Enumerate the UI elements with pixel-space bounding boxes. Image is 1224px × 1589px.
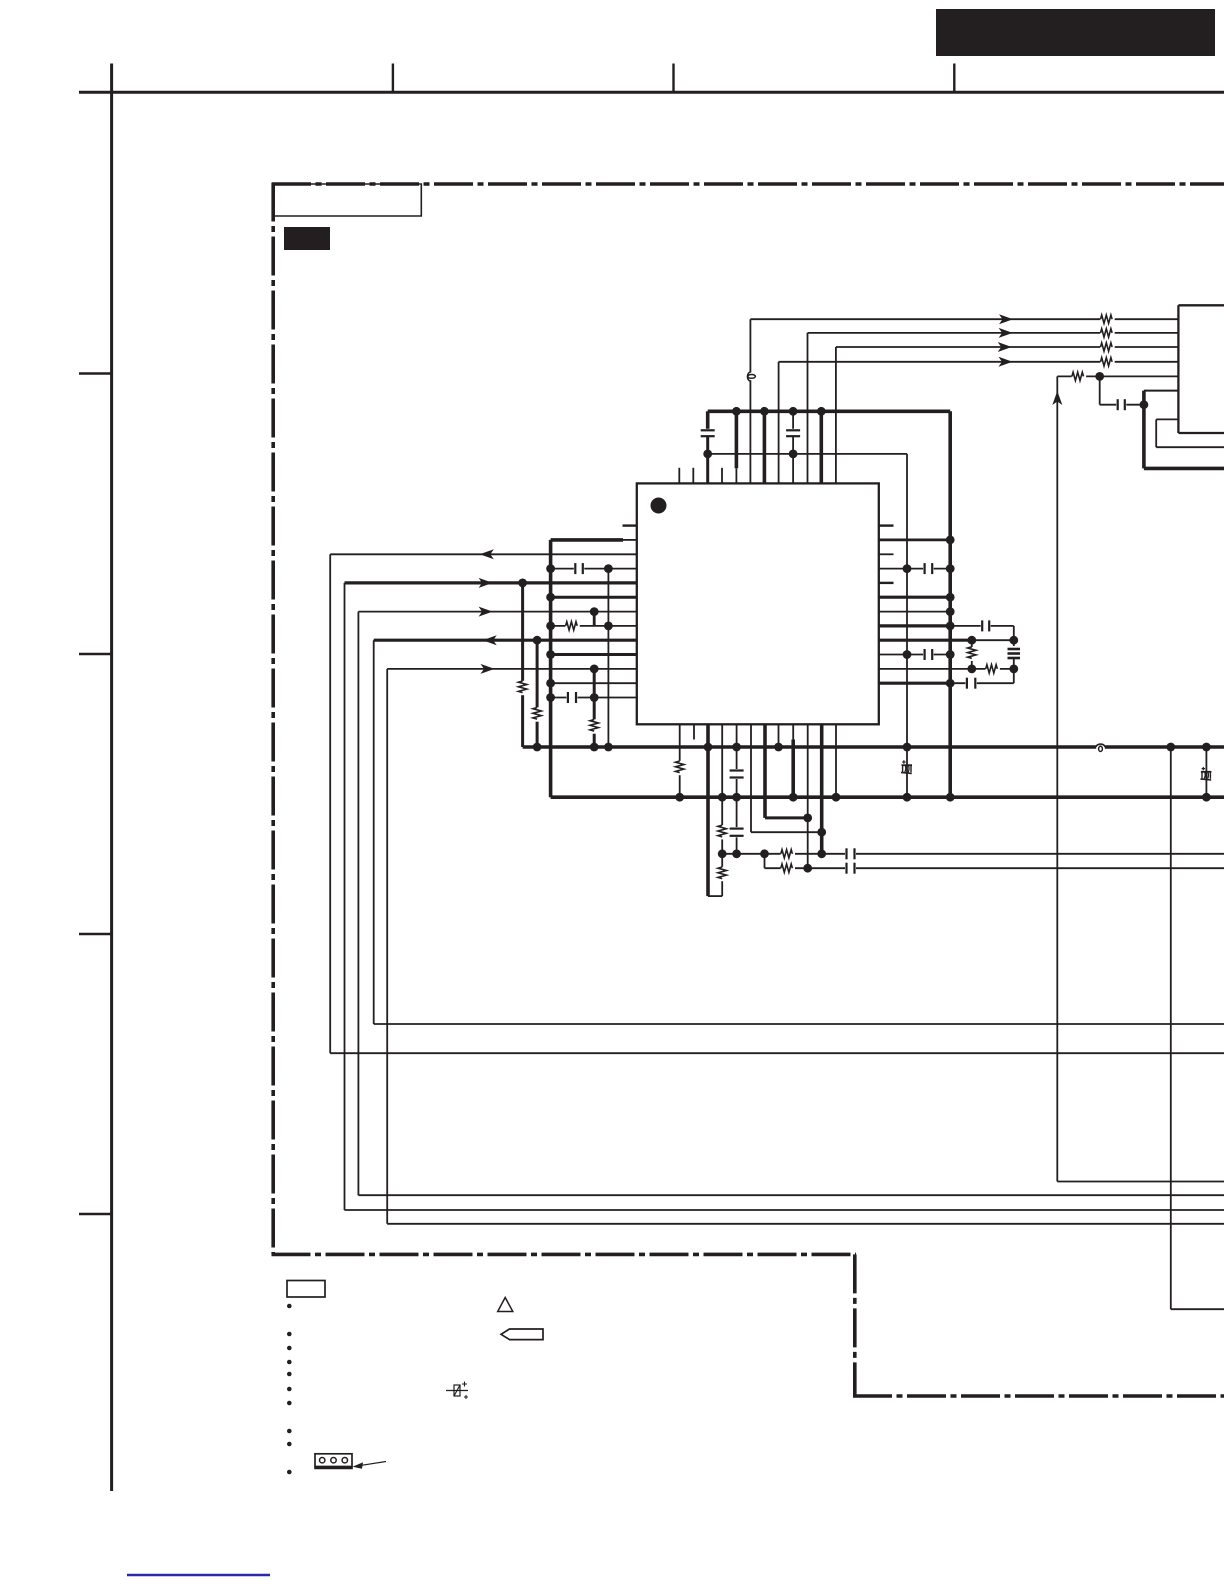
node b10 link bbox=[817, 828, 826, 837]
node railL r3 bbox=[546, 564, 555, 573]
title bar (redacted) bbox=[936, 9, 1215, 56]
grid tick top 3 bbox=[953, 64, 955, 93]
node L3 bbox=[590, 607, 599, 616]
node T5 bbox=[1095, 372, 1104, 381]
node railA gnd2 bbox=[903, 793, 912, 802]
node railD bus1 bbox=[590, 743, 599, 752]
board boundary top bbox=[272, 182, 1224, 186]
node L4 bbox=[533, 636, 542, 645]
wire b7 bbox=[778, 724, 780, 747]
grid tick left 3 bbox=[79, 933, 112, 935]
node rrow1 bbox=[946, 536, 955, 545]
capacitor C5 bbox=[566, 691, 577, 704]
board boundary bottom left bbox=[272, 1253, 857, 1257]
bus GND1 bbox=[523, 745, 1224, 749]
board label box bbox=[273, 184, 421, 216]
pin stub row0 bbox=[623, 524, 637, 526]
grid tick top 1 bbox=[392, 64, 394, 93]
capacitor C7 bbox=[729, 827, 745, 837]
wire L2 bottom bbox=[345, 1209, 1224, 1211]
wire b4 bbox=[736, 724, 738, 854]
board boundary step vertical bbox=[853, 1254, 857, 1396]
node v537 bus1 bbox=[533, 743, 542, 752]
pin stub nc2 bbox=[692, 468, 694, 484]
wire rrow11 bbox=[879, 682, 950, 685]
jumper J1 bbox=[901, 760, 912, 773]
wire L3 bbox=[358, 611, 636, 613]
wire v522 bbox=[521, 583, 524, 747]
wire pin row1 thin bbox=[623, 539, 637, 541]
node gnd1 x1170 bbox=[1166, 743, 1175, 752]
capacitor C9 bbox=[845, 862, 856, 875]
resistor R4 bbox=[1100, 356, 1114, 368]
wire block L1 a bbox=[1144, 390, 1179, 392]
wire L5 bbox=[387, 668, 637, 670]
node rrow8 a bbox=[967, 636, 976, 645]
jumper J3 bbox=[1200, 767, 1211, 780]
wire bus pin d bbox=[819, 411, 823, 483]
wire rrow7 ext bbox=[950, 625, 1014, 627]
node rrow7 bbox=[946, 622, 955, 631]
node b4 mid bbox=[732, 849, 741, 858]
wire b8 b bbox=[791, 740, 795, 798]
node railL r7 bbox=[546, 622, 555, 631]
wire b2 U bbox=[708, 895, 722, 897]
resistor R1 bbox=[1100, 313, 1114, 325]
wire cap2 upper bbox=[792, 411, 794, 430]
wire block L2 b bbox=[1155, 419, 1157, 447]
resistor R13 bbox=[781, 848, 795, 860]
resistor R12 bbox=[716, 867, 728, 881]
resistor R7 bbox=[588, 719, 600, 733]
wire row9 bbox=[551, 653, 637, 656]
wire b5 bbox=[750, 724, 752, 832]
node bus c bbox=[789, 407, 798, 416]
legend bullet 6 bbox=[287, 1387, 292, 1392]
node gnd2 x1206 bbox=[1202, 793, 1211, 802]
wire T3 bbox=[836, 346, 1179, 348]
wire b0 bbox=[679, 724, 681, 797]
wire block L1 b bbox=[1142, 391, 1146, 469]
legend bullet 1 bbox=[287, 1304, 292, 1309]
node rrow3 b bbox=[946, 564, 955, 573]
node rrow9 a bbox=[903, 650, 912, 659]
node rrow5 bbox=[946, 593, 955, 602]
block top edge bbox=[1178, 304, 1224, 306]
node b9 mid bbox=[803, 864, 812, 873]
wire L1 drop bbox=[329, 554, 331, 1053]
grid tick left 4 bbox=[79, 1213, 112, 1215]
wire block L1 c bbox=[1144, 467, 1224, 471]
node railC bus1 bbox=[604, 743, 613, 752]
node b3 gnd2 bbox=[718, 793, 727, 802]
resistor R14 bbox=[781, 862, 795, 874]
wire L5 bottom bbox=[387, 1223, 1224, 1225]
node b8 gnd2 bbox=[789, 793, 798, 802]
arrow T1 bbox=[999, 314, 1013, 324]
legend triangle bbox=[498, 1298, 513, 1312]
crystal X1 bbox=[1006, 646, 1022, 661]
pin stub nc3 bbox=[721, 468, 723, 484]
node b7 gnd1 bbox=[774, 743, 783, 752]
pin stub b1 bbox=[693, 724, 695, 739]
legend jumper symbol bbox=[446, 1382, 468, 1400]
wire L1 bbox=[330, 553, 637, 555]
arrow L3 bbox=[479, 607, 493, 617]
node b10 mid bbox=[817, 849, 826, 858]
wire cap2 lower bbox=[792, 436, 794, 483]
capacitor C1 bbox=[700, 429, 716, 438]
capacitor C2 bbox=[785, 429, 801, 438]
wire row11 bbox=[551, 682, 637, 684]
wire xtal res v1 bbox=[971, 640, 973, 647]
node rrow11 bbox=[946, 679, 955, 688]
node L5 bbox=[590, 665, 599, 674]
wire v1206 bbox=[1205, 747, 1207, 797]
node bus-left bbox=[703, 450, 712, 459]
legend pointer tag bbox=[501, 1329, 543, 1340]
node railL r9 bbox=[546, 650, 555, 659]
block bottom edge bbox=[1178, 432, 1224, 434]
wire T3 riser bbox=[835, 347, 837, 483]
wire rrow7 bbox=[879, 624, 950, 627]
wire b6 link bbox=[765, 816, 808, 819]
legend box bbox=[287, 1281, 325, 1298]
wire rrow8 b bbox=[972, 639, 1014, 641]
node railL r11 bbox=[546, 679, 555, 688]
capacitor C12 bbox=[923, 648, 934, 661]
wire xtal res v2 bbox=[971, 661, 973, 669]
resistor R8 bbox=[517, 681, 529, 695]
board boundary left bbox=[271, 183, 275, 1255]
rail C bbox=[607, 569, 609, 747]
node railC r7 bbox=[604, 622, 613, 631]
wire pin row1 thick bbox=[551, 538, 623, 542]
wire b5 link bbox=[751, 831, 822, 833]
wire row3 bbox=[551, 568, 637, 570]
resistor R3 bbox=[1100, 341, 1114, 353]
rail D bbox=[593, 669, 596, 747]
IC U1 body bbox=[637, 483, 879, 724]
legend arrow bbox=[353, 1462, 387, 1469]
wire T5 to block bbox=[1100, 375, 1179, 377]
wire rrow5 bbox=[879, 596, 950, 599]
legend bullet 10 bbox=[287, 1470, 292, 1475]
node L2 bbox=[518, 579, 527, 588]
node bus b bbox=[760, 407, 769, 416]
wire T5 bottom bbox=[1057, 1181, 1224, 1183]
wire RC2 stub bbox=[764, 854, 766, 868]
pin stub nc1 bbox=[678, 468, 680, 484]
wire rrow3 a bbox=[879, 568, 907, 570]
wire b2 bbox=[706, 724, 710, 896]
arrow L4 bbox=[483, 635, 497, 645]
capacitor C4 bbox=[574, 562, 585, 575]
wire rrow1 bbox=[879, 539, 950, 542]
wire rrow8 bbox=[879, 639, 972, 642]
wire T5 vertical bbox=[1056, 376, 1058, 1181]
wire RC2 bbox=[765, 867, 1224, 869]
node railL r5 bbox=[546, 593, 555, 602]
node gnd1 x1206 bbox=[1202, 743, 1211, 752]
node C3 bbox=[1140, 400, 1149, 409]
pin stub r4 bbox=[879, 582, 894, 584]
arrow T3 bbox=[998, 342, 1012, 352]
wire L2 drop bbox=[344, 583, 346, 1210]
page top rule bbox=[79, 91, 1224, 94]
node b4 gnd2 bbox=[732, 793, 741, 802]
legend bullet 3 bbox=[287, 1346, 292, 1351]
wire xtal right v2 bbox=[1013, 658, 1015, 683]
wire v1170 bottom bbox=[1171, 1308, 1224, 1310]
wire L5 drop bbox=[386, 669, 388, 1224]
pin stub a bbox=[735, 468, 737, 483]
node b0 gnd2 bbox=[675, 793, 684, 802]
wire L4 bottom bbox=[374, 1023, 1224, 1025]
wire T1 riser bbox=[749, 319, 751, 483]
arrow L5 bbox=[481, 664, 495, 674]
resistor R5 bbox=[1072, 370, 1086, 382]
wire mid rail bbox=[708, 453, 907, 455]
wire T2 riser bbox=[807, 333, 809, 484]
wire T2 bbox=[808, 332, 1179, 334]
grid tick top 2 bbox=[672, 64, 674, 93]
wire row5 bbox=[551, 596, 637, 599]
wire b8 a bbox=[792, 724, 794, 739]
node railA gnd1 bbox=[903, 743, 912, 752]
wire T4 bbox=[779, 361, 1179, 363]
board boundary bottom right bbox=[853, 1394, 1224, 1398]
wire b11 bbox=[835, 724, 837, 797]
wire T4 riser bbox=[778, 362, 780, 484]
legend bullet 5 bbox=[287, 1372, 292, 1377]
node rrow10 a bbox=[967, 665, 976, 674]
capacitor C6 bbox=[729, 769, 745, 779]
node bus a bbox=[732, 407, 741, 416]
page left rule bbox=[110, 64, 113, 1492]
wire C3 link bbox=[1100, 404, 1144, 406]
legend bullet 2 bbox=[287, 1332, 292, 1337]
rail L (left thick) bbox=[549, 540, 553, 797]
arrow L2 bbox=[479, 578, 493, 588]
node bus d bbox=[817, 407, 826, 416]
wire cap to node bbox=[706, 436, 709, 483]
bus GND2 bbox=[551, 795, 1224, 799]
node railD r12 bbox=[590, 693, 599, 702]
node railL r12 bbox=[546, 693, 555, 702]
node rrow3 a bbox=[903, 564, 912, 573]
wire block L2 a bbox=[1156, 418, 1178, 420]
node b11 gnd2 bbox=[832, 793, 841, 802]
wire T5 top bbox=[1057, 375, 1099, 377]
wire rrow11 ext bbox=[950, 682, 1014, 684]
wire rrow6 bbox=[879, 611, 950, 613]
pin stub r2 bbox=[879, 553, 894, 555]
wire L4 bbox=[374, 639, 637, 642]
arrow T4 bbox=[999, 357, 1013, 367]
wire T1 bbox=[750, 318, 1178, 320]
wire rrow10 bbox=[879, 668, 1014, 670]
wire L3 drop bbox=[357, 612, 359, 1196]
node b4 gnd1 bbox=[732, 743, 741, 752]
node mid rail bbox=[789, 450, 798, 459]
jumper bead T1 bbox=[747, 372, 755, 381]
wire bus pin b bbox=[763, 411, 767, 483]
wire b10 bbox=[820, 724, 824, 854]
rail B (right thick) bbox=[948, 411, 952, 797]
legend bullet 8 bbox=[287, 1429, 292, 1434]
resistor R6 bbox=[565, 620, 579, 632]
resistor R16 bbox=[986, 663, 1000, 675]
resistor R15 bbox=[966, 647, 978, 661]
board name (redacted) bbox=[284, 227, 330, 250]
legend bullet 7 bbox=[287, 1401, 292, 1406]
VDD bus bbox=[708, 409, 951, 413]
resistor R10 bbox=[674, 761, 686, 775]
capacitor C8 bbox=[845, 847, 856, 860]
legend bullet 4 bbox=[287, 1360, 292, 1365]
wire row7 up bbox=[593, 612, 596, 626]
jumper bead J2 bbox=[1096, 744, 1105, 751]
legend connector icon bbox=[314, 1454, 353, 1468]
node rrow9 b bbox=[946, 650, 955, 659]
capacitor C13 bbox=[965, 677, 976, 690]
wire row12 bbox=[551, 697, 637, 699]
resistor R11 bbox=[716, 825, 728, 839]
wire row7 bbox=[551, 625, 637, 627]
wire L2 bbox=[345, 581, 637, 584]
wire L4 drop bbox=[373, 640, 375, 1024]
wire L3 bottom bbox=[358, 1194, 1224, 1196]
node RC1 a bbox=[760, 849, 769, 858]
resistor R2 bbox=[1100, 327, 1114, 339]
wire RC1 bbox=[722, 853, 1224, 855]
node rrow10 b bbox=[1009, 665, 1018, 674]
resistor R9 bbox=[531, 707, 543, 721]
wire v1170 bbox=[1170, 747, 1172, 1309]
capacitor C11 bbox=[981, 619, 991, 632]
IC U1 pin-1 mark bbox=[651, 498, 667, 514]
block left edge bbox=[1177, 305, 1179, 433]
wire b3 bbox=[721, 724, 723, 896]
wire rrow9 bbox=[879, 654, 950, 656]
grid tick left 1 bbox=[79, 372, 112, 374]
wire bus left drop bbox=[706, 411, 710, 430]
arrow L1 bbox=[480, 549, 494, 559]
node b6 link bbox=[803, 814, 812, 823]
legend bullet 9 bbox=[287, 1442, 292, 1447]
node rrow6 bbox=[946, 607, 955, 616]
rail A (right thin) bbox=[906, 454, 908, 797]
node railC r3 bbox=[604, 564, 613, 573]
wire T5 drop bbox=[1099, 376, 1101, 404]
grid tick left 2 bbox=[79, 653, 112, 655]
wire b9 bbox=[807, 724, 809, 868]
footer link rule bbox=[127, 1574, 270, 1577]
capacitor C10 bbox=[923, 562, 934, 575]
wire b6 bbox=[763, 724, 767, 818]
pin stub r0 bbox=[879, 524, 894, 526]
arrow T2 bbox=[999, 328, 1013, 338]
node b3 mid bbox=[718, 849, 727, 858]
wire bus pin a bbox=[735, 411, 739, 468]
wire block L2 c bbox=[1156, 446, 1224, 448]
node b2 gnd1 bbox=[704, 743, 713, 752]
node rrow8 b bbox=[1009, 636, 1018, 645]
node railB gnd2 bbox=[946, 793, 955, 802]
wire rrow3 b bbox=[907, 568, 950, 570]
capacitor C3 bbox=[1116, 398, 1126, 411]
wire L1 bottom bbox=[330, 1052, 1224, 1054]
wire v537 bbox=[536, 640, 539, 747]
wire xtal right v1 bbox=[1013, 626, 1015, 648]
arrow T5 up bbox=[1052, 391, 1062, 405]
